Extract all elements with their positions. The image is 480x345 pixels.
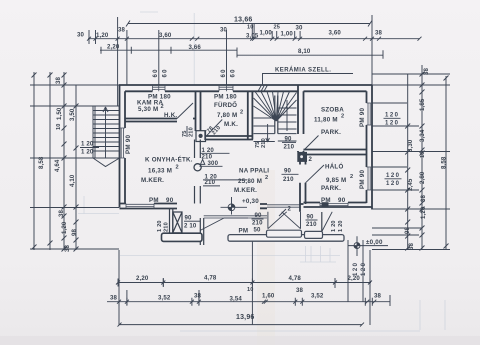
svg-text:120: 120 xyxy=(361,261,367,276)
svg-text:38: 38 xyxy=(375,30,383,37)
svg-text:3,05: 3,05 xyxy=(246,33,259,40)
svg-text:+0,30: +0,30 xyxy=(242,198,259,205)
svg-text:K ONYHA-ÉTK.: K ONYHA-ÉTK. xyxy=(145,156,193,164)
svg-text:90: 90 xyxy=(284,168,292,175)
svg-text:120: 120 xyxy=(385,113,400,119)
svg-text:25,80 M: 25,80 M xyxy=(238,178,262,185)
svg-text:1,00: 1,00 xyxy=(281,31,294,38)
dim line row2 xyxy=(88,38,420,40)
ghost marks bottom right xyxy=(180,300,445,331)
svg-text:PM: PM xyxy=(321,197,331,204)
south wall east segment with double door opening xyxy=(260,204,304,208)
svg-text:KERÁMIA SZELL.: KERÁMIA SZELL. xyxy=(275,67,331,74)
svg-text:PARK.: PARK. xyxy=(321,185,341,192)
svg-text:2,20: 2,20 xyxy=(136,275,149,282)
svg-text:2,20: 2,20 xyxy=(107,43,120,50)
svg-text:38: 38 xyxy=(296,287,304,294)
svg-text:25: 25 xyxy=(274,25,281,31)
ghost verticals bottom center xyxy=(306,246,331,262)
svg-text:210: 210 xyxy=(283,176,294,183)
svg-text:120: 120 xyxy=(386,173,401,179)
svg-text:30: 30 xyxy=(220,27,228,34)
south wall halo xyxy=(304,203,373,208)
svg-text:38: 38 xyxy=(420,194,427,202)
double door leaves xyxy=(268,212,301,229)
dim line 13,66 xyxy=(126,21,372,27)
right vertical dim lines xyxy=(408,65,446,250)
svg-text:9,85 M: 9,85 M xyxy=(326,177,346,184)
svg-text:2,45: 2,45 xyxy=(407,178,414,191)
halo east window xyxy=(367,167,373,190)
svg-text:2: 2 xyxy=(350,174,353,180)
svg-text:PM: PM xyxy=(239,228,249,235)
svg-text:210: 210 xyxy=(261,138,267,148)
terrace slab long xyxy=(228,235,344,242)
svg-text:210: 210 xyxy=(164,222,170,232)
porch west wall xyxy=(170,209,173,234)
halo terrace door xyxy=(321,212,323,232)
window konyha south xyxy=(126,204,154,209)
svg-text:3,50: 3,50 xyxy=(69,108,76,121)
svg-text:60: 60 xyxy=(152,68,159,77)
svg-text:90: 90 xyxy=(338,197,346,204)
svg-text:90: 90 xyxy=(255,212,263,219)
kerámia vent hatch in top wall xyxy=(258,85,268,91)
svg-text:H.K.: H.K. xyxy=(164,112,177,119)
svg-text:1 20: 1 20 xyxy=(331,220,337,232)
ghost top marks xyxy=(140,12,194,85)
szoba door leaf xyxy=(304,136,319,151)
level mark nappali xyxy=(221,197,248,215)
svg-text:60: 60 xyxy=(162,68,169,77)
svg-text:M.KER.: M.KER. xyxy=(141,177,164,184)
terrace slab west xyxy=(162,233,203,241)
svg-text:30: 30 xyxy=(296,25,304,32)
bottom extension verticals xyxy=(119,240,390,325)
terrace north edge window band xyxy=(204,216,267,218)
svg-text:98: 98 xyxy=(71,228,78,236)
svg-text:8,10: 8,10 xyxy=(298,48,311,55)
svg-text:10: 10 xyxy=(56,123,62,130)
svg-text:1,00: 1,00 xyxy=(260,30,273,37)
svg-text:38: 38 xyxy=(423,67,430,75)
svg-text:7,80 M: 7,80 M xyxy=(217,112,237,119)
ghost line terrace bottom xyxy=(120,256,340,263)
svg-text:FÜRDŐ: FÜRDŐ xyxy=(214,102,237,109)
svg-text:2: 2 xyxy=(341,114,344,120)
ghost faint lines xyxy=(78,12,445,331)
level mark terrace xyxy=(348,236,388,256)
svg-text:8,58: 8,58 xyxy=(441,156,448,169)
svg-text:HÁLÓ: HÁLÓ xyxy=(325,163,344,171)
terrace slab mid xyxy=(267,230,302,237)
svg-text:1,20: 1,20 xyxy=(420,206,427,219)
kamra door leaf xyxy=(177,103,193,119)
line between 120/120 xyxy=(80,147,99,149)
svg-text:1,50: 1,50 xyxy=(56,107,63,120)
svg-text:210: 210 xyxy=(306,221,317,228)
svg-text:38: 38 xyxy=(374,293,382,300)
svg-text:38: 38 xyxy=(110,295,118,302)
entrance door leaf rect xyxy=(173,212,182,233)
svg-text:38: 38 xyxy=(408,242,415,250)
dim line row3 xyxy=(100,50,383,55)
ghost line left terrace xyxy=(78,196,119,214)
interior winder stair xyxy=(254,92,297,143)
svg-text:2 10: 2 10 xyxy=(184,222,197,229)
dim line bottom row2 xyxy=(107,301,390,303)
svg-text:PARK.: PARK. xyxy=(321,129,341,136)
svg-text:38: 38 xyxy=(194,293,202,300)
svg-text:NA PPALI: NA PPALI xyxy=(239,168,269,175)
svg-text:PM 90: PM 90 xyxy=(359,108,366,127)
svg-text:3,30: 3,30 xyxy=(407,139,414,152)
fürdő top window xyxy=(219,85,233,91)
fan winders xyxy=(254,92,297,122)
svg-text:3,54: 3,54 xyxy=(230,296,243,303)
svg-text:13,96: 13,96 xyxy=(236,314,255,321)
svg-text:210: 210 xyxy=(252,220,263,227)
svg-text:10: 10 xyxy=(247,287,254,293)
walk lines xyxy=(266,100,287,142)
kamra top window xyxy=(153,85,166,91)
window halo south xyxy=(320,203,348,208)
right ticks xyxy=(405,72,448,251)
svg-text:38: 38 xyxy=(55,76,62,84)
svg-text:PM 90: PM 90 xyxy=(359,170,366,189)
spine xyxy=(275,96,278,134)
svg-text:M.KER.: M.KER. xyxy=(234,187,257,194)
szoba/halo wall xyxy=(304,150,367,155)
dark sill segment xyxy=(322,202,329,207)
svg-text:PM 180: PM 180 xyxy=(148,94,171,101)
svg-text:60: 60 xyxy=(230,68,237,77)
svg-text:90: 90 xyxy=(185,215,193,222)
konyha/nappali wall xyxy=(195,140,201,204)
svg-text:10: 10 xyxy=(420,151,426,158)
svg-text:10: 10 xyxy=(247,25,254,31)
top wall inner with window gaps xyxy=(125,90,367,92)
svg-text:5,30 M: 5,30 M xyxy=(138,106,158,113)
top extension lines xyxy=(89,15,372,106)
svg-text:1 20: 1 20 xyxy=(81,149,94,156)
svg-text:3,34: 3,34 xyxy=(419,129,426,142)
triangle 300 xyxy=(200,159,204,164)
svg-text:120: 120 xyxy=(385,121,400,127)
svg-text:2: 2 xyxy=(240,110,243,116)
svg-text:90: 90 xyxy=(166,197,174,204)
south wall west (konyha) xyxy=(120,204,178,209)
top wall outer xyxy=(119,84,372,86)
svg-text:4,10: 4,10 xyxy=(69,174,76,187)
svg-text:3,52: 3,52 xyxy=(158,295,171,302)
svg-text:38: 38 xyxy=(64,244,71,252)
svg-text:120: 120 xyxy=(353,261,359,276)
svg-text:1,20: 1,20 xyxy=(61,221,68,234)
svg-text:4,78: 4,78 xyxy=(204,274,217,281)
svg-text:3,66: 3,66 xyxy=(189,44,202,51)
svg-text:PM 90: PM 90 xyxy=(125,135,132,154)
svg-text:3,60: 3,60 xyxy=(329,30,342,37)
right wall xyxy=(367,85,373,210)
halo west door leaf xyxy=(306,165,325,183)
kamra south wall xyxy=(125,119,196,122)
szoba east window xyxy=(367,103,373,125)
svg-text:M.K.: M.K. xyxy=(224,121,238,128)
svg-text:1,20: 1,20 xyxy=(96,32,109,39)
svg-text:210: 210 xyxy=(189,127,195,137)
fürdő south wall xyxy=(205,136,253,140)
left vertical dim lines xyxy=(34,72,76,250)
svg-text:3,60: 3,60 xyxy=(159,32,172,39)
svg-text:4,64: 4,64 xyxy=(54,159,61,172)
svg-text:8,58: 8,58 xyxy=(38,156,45,169)
svg-text:2,80: 2,80 xyxy=(419,171,426,184)
svg-text:38: 38 xyxy=(118,27,126,34)
svg-text:16,33 M: 16,33 M xyxy=(148,168,172,175)
svg-text:2: 2 xyxy=(265,175,268,181)
right extension horizontals xyxy=(372,74,450,250)
fürdő flue block xyxy=(196,131,206,142)
svg-text:300: 300 xyxy=(208,160,219,167)
top dim texts xyxy=(77,17,383,55)
chimney block xyxy=(297,152,307,162)
svg-text:30: 30 xyxy=(77,32,85,39)
kamra/fürdő divider wall xyxy=(196,91,201,131)
terrace west edge xyxy=(200,218,203,245)
svg-text:1,85: 1,85 xyxy=(419,98,426,111)
left flight treads xyxy=(254,118,275,142)
svg-text:90: 90 xyxy=(307,213,315,220)
entrance swing xyxy=(200,218,248,231)
dim line bottom row1 xyxy=(118,282,371,284)
svg-text:120: 120 xyxy=(386,181,401,187)
svg-text:60: 60 xyxy=(220,68,227,77)
svg-text:PM: PM xyxy=(149,197,159,204)
exterior stair west xyxy=(93,106,120,167)
svg-text:3,52: 3,52 xyxy=(311,293,324,300)
left extension horizontals xyxy=(30,85,119,249)
svg-text:2: 2 xyxy=(288,206,292,213)
svg-text:2: 2 xyxy=(176,165,179,171)
left wall xyxy=(120,85,126,208)
svg-text:4,78: 4,78 xyxy=(289,275,302,282)
fürdő door leaf xyxy=(205,120,222,141)
fürdő/stair wall xyxy=(248,91,253,139)
svg-text:1 20: 1 20 xyxy=(157,220,163,232)
svg-text:210: 210 xyxy=(205,179,216,186)
svg-text:50: 50 xyxy=(254,227,262,234)
svg-text:PM 180: PM 180 xyxy=(214,94,237,101)
left wall window xyxy=(120,128,126,158)
dim line bottom row3 xyxy=(118,323,365,327)
svg-text:98: 98 xyxy=(404,226,411,234)
right flight treads xyxy=(278,108,297,141)
svg-text:11,80 M: 11,80 M xyxy=(314,117,338,124)
svg-text:2: 2 xyxy=(309,156,313,163)
svg-text:1 20: 1 20 xyxy=(81,141,94,148)
left ticks xyxy=(32,73,79,252)
svg-text:210: 210 xyxy=(284,144,295,151)
svg-text:2: 2 xyxy=(161,104,164,110)
svg-text:1 20: 1 20 xyxy=(338,220,344,232)
fold shading xyxy=(257,170,275,345)
svg-text:±0,00: ±0,00 xyxy=(366,239,383,246)
svg-text:13,66: 13,66 xyxy=(234,17,253,24)
svg-text:1,60: 1,60 xyxy=(262,293,275,300)
svg-text:SZOBA: SZOBA xyxy=(321,107,344,114)
stair/szoba wall xyxy=(298,85,304,152)
nappali/halo divider xyxy=(300,152,306,212)
svg-text:38: 38 xyxy=(58,209,65,217)
column circle xyxy=(194,164,201,171)
